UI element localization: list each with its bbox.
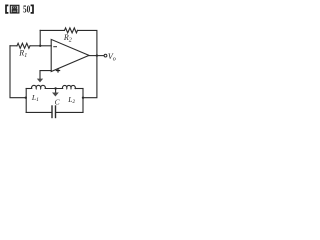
svg-text:L1: L1 — [31, 93, 39, 103]
op-amp minus sign — [53, 46, 57, 48]
caption bracket right — [31, 5, 33, 12]
op-amp plus sign — [56, 70, 60, 72]
svg-text:R1: R1 — [18, 49, 27, 59]
capacitor C plates — [52, 106, 56, 118]
wire node B to output terminal — [97, 55, 104, 57]
wire top feedback rail right segment and right vertical down — [78, 30, 97, 97]
wire R1 row left lead — [10, 45, 17, 47]
junction node left tank — [25, 97, 27, 99]
ground arrow head (plus input) — [37, 79, 43, 83]
inductor L1 — [30, 85, 48, 88]
svg-text:50: 50 — [23, 4, 31, 16]
svg-text:C: C — [55, 98, 61, 107]
wire tank left edge — [25, 89, 27, 113]
wire tank top rail segments — [26, 88, 30, 90]
ground arrow head (tank midpoint) — [52, 93, 59, 97]
resistor R1 — [17, 43, 30, 48]
wire plus input lead and down to ground arrow — [40, 71, 51, 79]
junction node B output — [96, 54, 98, 56]
resistor R2 — [65, 28, 78, 33]
caption bracket left — [6, 5, 8, 12]
wire tank top rail right to corner — [75, 88, 83, 90]
svg-text:R2: R2 — [63, 33, 72, 43]
wire tank bottom rail right of capacitor — [56, 111, 84, 113]
op-amp U1 triangle — [51, 39, 89, 71]
wire tank right edge — [82, 89, 84, 113]
wire left vertical from R1 row down to bottom network — [10, 46, 26, 98]
junction node tank midpoint — [54, 87, 56, 89]
ground arrow stem at tank midpoint — [55, 89, 57, 93]
svg-text:L2: L2 — [67, 95, 75, 105]
wire R1 to node A — [30, 45, 40, 47]
caption glyph tu (figure) — [10, 5, 19, 13]
wire tank bottom rail left of capacitor — [26, 111, 52, 113]
junction node right tank — [82, 97, 84, 99]
wire node A to op-amp minus input — [40, 45, 51, 47]
junction node A — [39, 45, 41, 47]
output terminal circle — [104, 54, 107, 57]
inductor L2 — [62, 85, 75, 88]
wire riser node A up to feedback rail — [39, 30, 41, 45]
wire op-amp output to node B — [89, 55, 97, 57]
svg-text:Vo: Vo — [108, 52, 116, 62]
wire top feedback rail left segment — [40, 29, 64, 31]
